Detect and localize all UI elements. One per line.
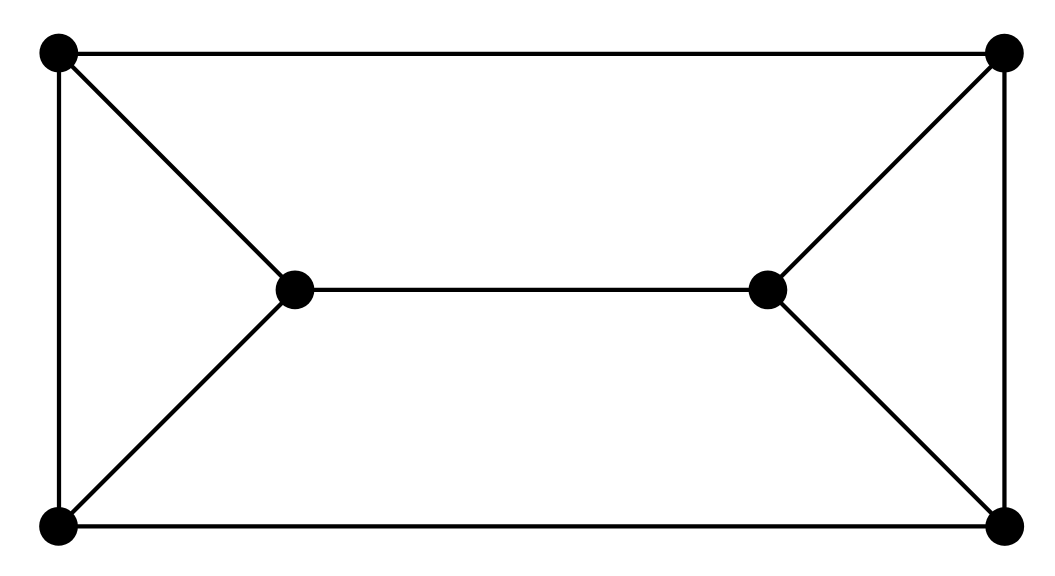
node bottom-right [985,507,1024,546]
wire diagonal BR-MR [768,290,1005,527]
wire right edge TR-BR [1002,53,1006,526]
node middle-left [276,270,315,309]
wire top edge TL-TR [59,52,1005,56]
node top-right [985,34,1024,73]
node bottom-left [39,507,78,546]
wire diagonal BL-ML [59,290,295,526]
node top-left [39,34,78,73]
node middle-right [749,271,788,310]
wire diagonal TL-ML [59,53,295,290]
wire middle edge ML-MR [295,288,768,292]
wire diagonal TR-MR [768,53,1005,290]
wire bottom edge BL-BR [59,524,1005,528]
wire left edge TL-BL [57,53,61,526]
